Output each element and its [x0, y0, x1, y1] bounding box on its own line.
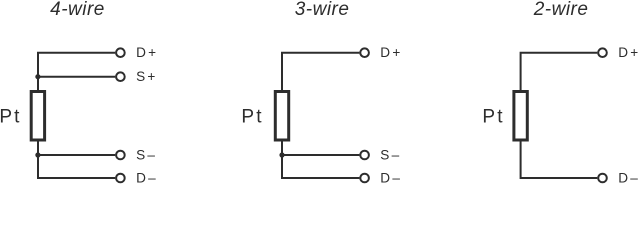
svg-text:4-wire: 4-wire [50, 0, 105, 20]
terminal circle: 2-wire D&#8722; [598, 174, 607, 183]
resistor Pt (4-wire RTD element) [31, 92, 44, 141]
terminal circle: 3-wire D+ [360, 48, 369, 57]
junction: 4-wire S&#8722; tap [35, 152, 40, 157]
junction: 4-wire S+ tap [35, 74, 40, 79]
junction: 3-wire S&#8722; tap [279, 152, 284, 157]
wire: 4-wire S+ lead [38, 76, 115, 78]
terminal circle: 4-wire S+ [116, 72, 125, 81]
terminal circle: 3-wire D&#8722; [360, 174, 369, 183]
terminal circle: 4-wire S&#8722; [116, 151, 125, 160]
svg-text:D+: D+ [136, 45, 158, 60]
svg-text:D–: D– [618, 171, 639, 186]
svg-text:S–: S– [136, 148, 157, 163]
svg-text:Pt: Pt [482, 106, 504, 127]
wire: 3-wire S&#8722; lead [282, 154, 359, 156]
svg-text:Pt: Pt [0, 106, 22, 127]
resistor Pt (3-wire RTD element) [275, 92, 288, 141]
terminal circle: 4-wire D+ [116, 48, 125, 57]
wire: 4-wire D+ lead with top corner [38, 53, 115, 90]
svg-text:D–: D– [380, 171, 402, 186]
resistor Pt (2-wire RTD element) [514, 92, 527, 141]
wire: 4-wire D&#8722; lead with bottom corner [38, 142, 115, 179]
svg-text:S–: S– [380, 148, 401, 163]
svg-text:2-wire: 2-wire [533, 0, 589, 20]
wire: 2-wire D&#8722; lead with bottom corner [521, 142, 598, 179]
svg-text:S+: S+ [136, 69, 157, 84]
wire: 3-wire D&#8722; lead with bottom corner [282, 142, 359, 179]
svg-text:D–: D– [136, 171, 158, 186]
svg-text:D+: D+ [380, 45, 402, 60]
svg-text:D+: D+ [618, 45, 639, 60]
terminal circle: 4-wire D&#8722; [116, 174, 125, 183]
wire: 3-wire D+ lead with top corner [282, 53, 359, 90]
terminal circle: 3-wire S&#8722; [360, 151, 369, 160]
svg-text:3-wire: 3-wire [295, 0, 350, 20]
wire: 2-wire D+ lead with top corner [521, 53, 598, 90]
wire: 4-wire S&#8722; lead [38, 154, 115, 156]
terminal circle: 2-wire D+ [598, 48, 607, 57]
svg-text:Pt: Pt [241, 106, 263, 127]
